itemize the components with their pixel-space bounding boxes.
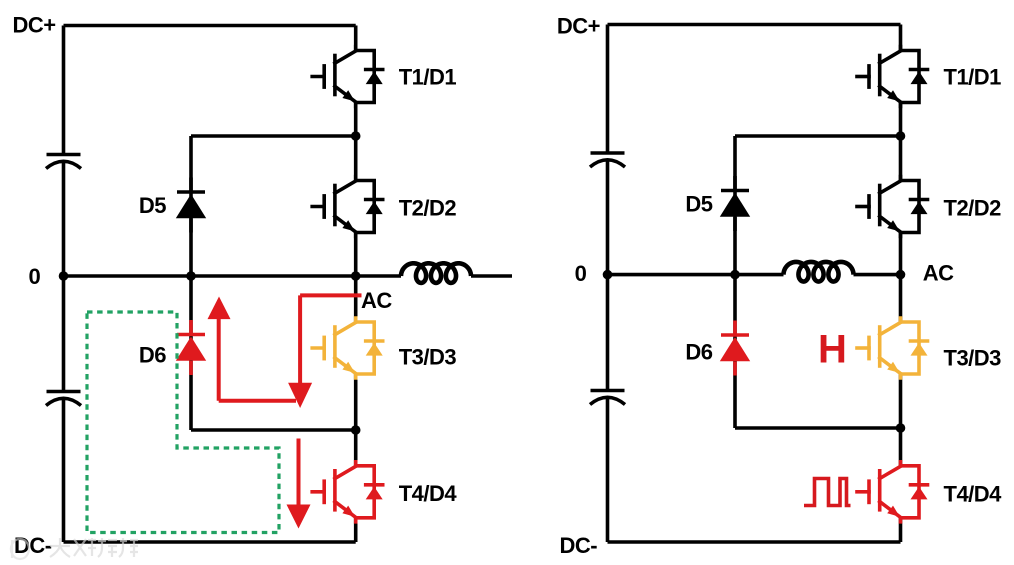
wire: clamp top horizontal (right): [735, 134, 901, 138]
wire: main branch T4 to DC- rail (right): [899, 517, 903, 542]
wire: bottom DC- rail: [64, 540, 356, 544]
green dashed commutation loop: [87, 312, 279, 533]
red current arrow down (from AC through T3): [300, 295, 361, 384]
node: junction dot clamp top / main branch (right): [896, 131, 906, 141]
wire: main branch T2 to AC node (right): [899, 233, 903, 275]
wire: main branch lower node to T4: [354, 430, 358, 467]
transistor T4 with diode D4 (IGBT, red, right): [857, 462, 928, 522]
wire: top DC+ rail: [64, 24, 356, 28]
wire: D6 branch vertical: [189, 276, 193, 430]
svg-text:T3/D3: T3/D3: [944, 346, 1002, 371]
wire: D5 branch vertical (right): [733, 136, 737, 275]
svg-text:DC+: DC+: [13, 13, 56, 38]
capacitor C2: [46, 392, 81, 406]
svg-text:T2/D2: T2/D2: [944, 196, 1002, 221]
svg-text:0: 0: [575, 261, 587, 286]
svg-text:0: 0: [29, 264, 41, 289]
svg-text:T1/D1: T1/D1: [944, 65, 1002, 90]
node: junction dot right rail / 0 line: [603, 270, 613, 280]
wire: left rail middle segment (C1 to C2): [62, 161, 66, 391]
svg-text:T4/D4: T4/D4: [944, 482, 1003, 507]
svg-text:DC-: DC-: [560, 533, 598, 558]
svg-text:DC-: DC-: [14, 533, 52, 558]
svg-text:AC: AC: [361, 288, 392, 313]
transistor T1 with diode D1 (IGBT, right): [857, 47, 928, 107]
svg-text:D5: D5: [139, 193, 166, 218]
wire: main branch T1-T2: [354, 103, 358, 181]
wire: clamp top horizontal (D5 branch to T1-T2 node): [191, 134, 356, 138]
node: junction dot left rail / 0 line: [59, 271, 69, 281]
wire: main branch lower node to T4 (right): [899, 428, 903, 467]
svg-text:D5: D5: [685, 192, 712, 217]
svg-text:D6: D6: [139, 343, 166, 368]
wire: left rail top segment (DC+ rail down to capacitor C1): [62, 26, 66, 155]
wire: main branch T4 to DC- rail: [354, 517, 358, 542]
transistor T2 with diode D2 (IGBT, right): [857, 177, 928, 237]
svg-text:H: H: [818, 328, 846, 372]
svg-text:T3/D3: T3/D3: [399, 345, 457, 370]
transistor T4 with diode D4 (IGBT, red): [312, 462, 383, 522]
wire: D5 branch vertical: [189, 136, 193, 276]
wire: main branch T2 to 0 node: [354, 233, 358, 277]
wire: top DC+ rail (right): [608, 23, 901, 27]
wire: main branch 0 node to T3: [354, 276, 358, 323]
svg-text:D6: D6: [685, 340, 712, 365]
wire: clamp bottom horizontal (right): [735, 426, 901, 430]
svg-text:T2/D2: T2/D2: [399, 196, 457, 221]
wire: main branch T3 to lower node: [354, 373, 358, 430]
node A: junction dot main branch / AC output: [351, 271, 361, 281]
wire: 0 node to inductor (right): [735, 273, 784, 277]
diode D5 (clamp, right): [720, 176, 750, 231]
wire: main branch AC node to T3 (right): [899, 275, 903, 323]
wire: neutral 0 line: [64, 274, 356, 278]
wire: inductor to AC node (right): [854, 273, 901, 277]
wire: clamp bottom horizontal (D6 branch to T3-T4 node): [191, 428, 356, 432]
wire: main branch T1-T2 (right): [899, 103, 903, 181]
wire: right rail top segment (DC+ rail down to C3): [606, 25, 610, 154]
wire: AC output to inductor: [356, 274, 401, 278]
transistor T3 with diode D3 (IGBT, yellow): [312, 318, 383, 378]
transistor T2 with diode D2 (IGBT): [312, 177, 383, 237]
svg-text:T4/D4: T4/D4: [399, 481, 458, 506]
wire: right rail bottom segment (C4 to DC- rail): [606, 397, 610, 542]
diode D6 (clamp, red, right): [720, 321, 750, 376]
wire: D6 branch vertical (right): [733, 275, 737, 428]
svg-text:DC+: DC+: [557, 14, 600, 39]
capacitor C3: [590, 153, 625, 167]
wire: right rail middle segment (C3 to C4): [606, 160, 610, 391]
node: junction dot clamp top / main branch: [351, 131, 361, 141]
red current arrow up (through D6 branch): [219, 319, 296, 401]
wire: left rail bottom segment (C2 to DC- rail): [62, 398, 66, 542]
inductor L1: [401, 263, 471, 283]
node: junction dot D5-D6 branch / 0 line (right): [730, 270, 740, 280]
node: junction dot clamp bottom / main branch (right): [896, 423, 906, 433]
watermark text glyphs: [50, 538, 138, 557]
transistor T1 with diode D1 (IGBT): [312, 47, 383, 107]
inductor L2: [784, 262, 854, 282]
wire: inductor to AC line end: [471, 274, 512, 278]
node: junction dot clamp bottom / main branch: [351, 425, 361, 435]
node AC: junction dot main branch / AC (right): [896, 270, 906, 280]
svg-text:AC: AC: [923, 261, 954, 286]
wire: main branch T1 collector feed: [354, 26, 358, 51]
wire: main branch T3 to lower node (right): [899, 373, 903, 428]
red current arrow down (through T4 branch): [297, 439, 301, 508]
watermark logo mark: [11, 539, 29, 559]
transistor T3 with diode D3 (IGBT, yellow, right): [857, 318, 928, 378]
svg-text:T1/D1: T1/D1: [399, 65, 457, 90]
wire: neutral 0 line to D6 branch (right): [608, 273, 736, 277]
diode D5 (clamp): [176, 178, 206, 233]
diode D6 (clamp, red): [176, 320, 206, 375]
wire: main branch T1 collector feed (right): [899, 25, 903, 51]
wire: bottom DC- rail (right): [608, 540, 901, 544]
capacitor C1: [46, 155, 81, 169]
node: junction dot D5-D6 branch / 0 line: [186, 271, 196, 281]
capacitor C4: [590, 391, 625, 405]
gate signal PWM square wave for T4: [804, 479, 851, 506]
